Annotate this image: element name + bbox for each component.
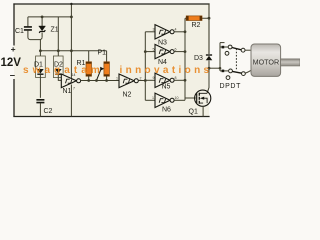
N1 pin number 7 (73, 87, 75, 91)
svg-text:5: 5 (153, 47, 155, 51)
switch DPDT lower lever (232, 71, 241, 73)
wire: P1 bottom to signal wire (106, 76, 108, 81)
inverter N5 output wire (174, 79, 185, 81)
svg-text:R2: R2 (192, 22, 201, 29)
inverter N3 (155, 25, 174, 39)
resistor R1 (86, 62, 92, 76)
N1 pin number 14 (72, 73, 76, 77)
svg-text:C1: C1 (15, 28, 24, 35)
svg-text:N5: N5 (162, 84, 171, 91)
wire: buffer output bus (184, 18, 187, 100)
switch DPDT upper throw contact (228, 45, 232, 49)
switch DPDT upper lever (232, 48, 241, 50)
wire: drain node down to Q1 drain (207, 68, 209, 93)
motor shaft (281, 59, 300, 66)
wire: DPDT upper throw stub (220, 46, 228, 49)
diode D2 (55, 69, 62, 74)
wire: gate feed from output bus to Q1 (185, 97, 196, 99)
svg-text:9: 9 (153, 76, 155, 80)
wire: buffer input bus (144, 32, 147, 101)
transistor Q1 label (189, 108, 198, 115)
svg-text:12V: 12V (1, 57, 22, 69)
wire: D3 anode down to drain node (208, 61, 211, 70)
wire: C1 branch (27, 17, 29, 27)
wire: D2 cathode to N1 input (58, 74, 61, 80)
transistor Q1 (N-MOSFET) (195, 90, 211, 106)
zener diode Z1 branch from feed line (41, 16, 44, 38)
wire: DPDT feed rail (219, 43, 225, 71)
wire: DPDT lower throw stub (220, 70, 228, 73)
wire: Z1 node down to D1 box, junction with bias wire (39, 40, 42, 56)
diode D1 (37, 69, 44, 74)
inverter N3 output wire (174, 31, 185, 33)
wire: D1 cathode down to C2 (39, 74, 41, 97)
zener Z1 label (51, 26, 59, 33)
watermark innovations (120, 65, 213, 76)
svg-text:C2: C2 (44, 108, 53, 115)
capacitor C2 (36, 100, 44, 117)
motor label (253, 57, 280, 66)
wire: N2 output to inverter input bus (138, 79, 146, 82)
watermark swagatam (23, 65, 104, 76)
resistor R1 lead from bias bus (88, 51, 90, 63)
potentiometer P1 (104, 62, 110, 76)
wire: N1 ground pin to bottom rail (70, 85, 72, 117)
inverter N6 (155, 93, 174, 107)
inverter N2 (119, 74, 138, 88)
diode D3 (206, 55, 213, 60)
svg-text:6: 6 (175, 47, 177, 51)
svg-text:10: 10 (175, 96, 179, 100)
inverter N6 label (162, 107, 171, 114)
svg-text:3: 3 (153, 28, 155, 32)
wire: D2 branch from feed line down into box (57, 17, 60, 56)
inverter N5 input wire (145, 79, 155, 81)
svg-text:N2: N2 (123, 92, 132, 99)
resistor R2 lead wires (185, 17, 210, 20)
resistor R1 label (77, 60, 86, 67)
svg-text:–: – (10, 70, 15, 81)
inverter N4 label (158, 59, 167, 66)
wire: right rail top section (to D3 cathode) (208, 3, 210, 54)
svg-text:Q1: Q1 (189, 108, 198, 115)
potentiometer P1 lead from bias bus (106, 51, 108, 63)
inverter N4 output wire (174, 51, 185, 53)
wire: horizontal bias bus y=51 (40, 50, 106, 52)
schematic background panel (14, 4, 209, 117)
svg-text:P1: P1 (98, 50, 107, 57)
svg-text:D3: D3 (194, 55, 203, 62)
svg-text:DPDT: DPDT (220, 83, 242, 90)
zener diode Z1 (39, 26, 46, 33)
capacitor C1 (24, 27, 32, 30)
inverter N5 (155, 73, 174, 87)
wire: lower pole to motor terminal (245, 70, 251, 73)
inverter N6 input wire (145, 99, 155, 101)
switch DPDT label (220, 83, 242, 90)
wire frame: left battery rail lower stub (13, 79, 15, 117)
svg-text:swagatam: swagatam (23, 65, 104, 76)
svg-text:N6: N6 (162, 107, 171, 114)
switch DPDT upper pole contact (241, 48, 245, 52)
svg-text:1: 1 (116, 77, 118, 81)
potentiometer P1 wiper arrow (97, 67, 105, 81)
wire: C1 bottom lead and loop bottom (28, 30, 42, 39)
diode D1 outline box (36, 56, 46, 78)
switch DPDT lower pole contact (242, 72, 246, 76)
wire: C1/Z1 feed line y=17 (28, 16, 72, 18)
inverter N4 (155, 44, 174, 58)
wire: N1 output signal line to N2 input (81, 79, 119, 82)
battery 12V label (1, 57, 22, 69)
svg-text:8: 8 (175, 76, 177, 80)
svg-text:2: 2 (140, 77, 142, 81)
svg-text:+: + (11, 44, 16, 54)
switch DPDT mechanical link (dashed) (235, 49, 237, 70)
inverter N1 (61, 74, 80, 88)
svg-text:N1: N1 (63, 88, 72, 95)
wire frame: bottom ground rail (13, 116, 209, 118)
svg-text:MOTOR: MOTOR (253, 57, 280, 66)
svg-text:4: 4 (175, 28, 177, 32)
potentiometer P1 label (98, 50, 107, 57)
capacitor C1 label (15, 28, 24, 35)
pin numbers (tiny) (116, 28, 179, 101)
inverter N3 label (158, 39, 167, 46)
wire: Q1 source to ground rail (202, 106, 204, 116)
battery + label (11, 44, 16, 54)
diode D1 label (34, 62, 43, 69)
wire: upper pole to motor terminal (245, 49, 251, 51)
capacitor C2 label (44, 108, 53, 115)
inverter N4 input wire (145, 51, 155, 53)
svg-text:N3: N3 (158, 39, 167, 46)
wire: R1 bottom to signal wire (88, 76, 90, 81)
switch DPDT lower throw contact (229, 69, 233, 73)
wire: drain node to DPDT rail (209, 67, 220, 69)
wire frame: left battery rail upper stub (13, 3, 15, 45)
inverter N2 label (123, 92, 132, 99)
wire: V+ feed drop from top rail to N1 supply pin (70, 3, 73, 79)
svg-text:11: 11 (152, 96, 156, 100)
inverter N3 input wire (145, 31, 155, 33)
diode D2 outline box (53, 56, 63, 78)
diode D3 label (194, 55, 203, 62)
switch DPDT upper spare throw contact (225, 51, 229, 55)
inverter N6 output wire (174, 99, 185, 101)
switch DPDT lower spare throw contact (226, 76, 230, 80)
wire frame: top +12V rail (13, 3, 209, 5)
inverter N5 label (162, 84, 171, 91)
svg-text:7: 7 (73, 87, 75, 91)
resistor R2 label (192, 22, 201, 29)
diode D2 label (54, 62, 63, 69)
inverter N1 label (63, 88, 72, 95)
battery - label (10, 70, 15, 81)
motor body (251, 44, 281, 76)
svg-text:Z1: Z1 (51, 26, 59, 33)
resistor R2 (186, 16, 202, 21)
svg-text:innovations: innovations (120, 65, 213, 76)
